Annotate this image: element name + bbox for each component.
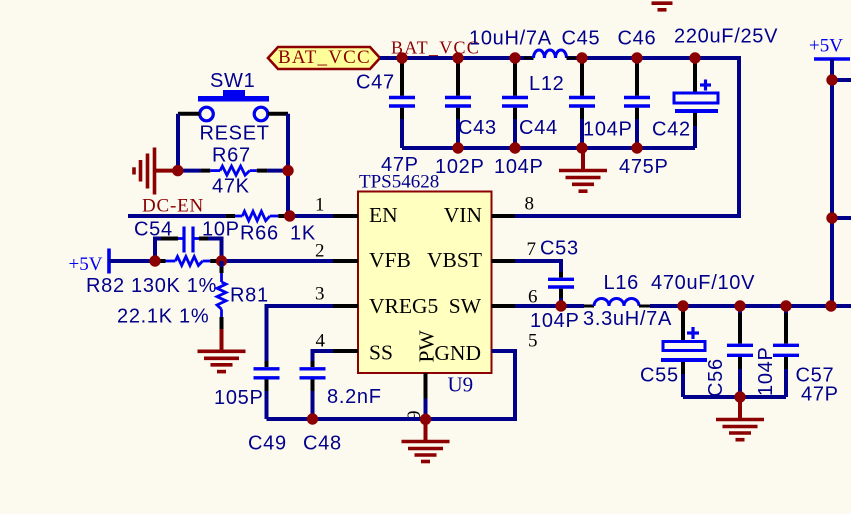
capacitor C57 (755, 306, 839, 406)
node C48 bottom (307, 413, 318, 424)
power port +5V (left) (69, 249, 156, 276)
svg-text:C47: C47 (356, 72, 395, 94)
svg-text:C42: C42 (652, 119, 691, 141)
svg-text:EN: EN (369, 203, 398, 227)
svg-text:8: 8 (525, 194, 535, 215)
wire top rail (380, 56, 534, 60)
svg-text:8.2nF: 8.2nF (327, 386, 382, 408)
ground (left, rotated) (134, 148, 176, 195)
svg-text:C48: C48 (303, 433, 342, 455)
svg-text:VBST: VBST (427, 248, 482, 272)
svg-text:L12: L12 (529, 73, 564, 95)
node junction C55 top (677, 300, 688, 311)
svg-text:L16: L16 (604, 272, 639, 294)
svg-text:PW: PW (415, 330, 439, 363)
node output gnd (734, 391, 745, 402)
node junction C46 top (631, 52, 642, 63)
capacitor C56 (705, 306, 753, 397)
svg-text:VFB: VFB (369, 248, 411, 272)
node junction C42 top (689, 52, 700, 63)
svg-text:3.3uH/7A: 3.3uH/7A (583, 308, 672, 330)
svg-text:5: 5 (528, 330, 538, 351)
ground (output) (716, 397, 764, 440)
inductor L12 (524, 50, 576, 58)
capacitor C42 (polarized) (652, 26, 778, 149)
wire EN to pin1 (288, 214, 333, 218)
svg-text:4: 4 (316, 330, 326, 351)
svg-text:C56: C56 (705, 358, 727, 397)
svg-text:7: 7 (527, 239, 537, 260)
pin 8 (492, 214, 516, 218)
svg-text:SW1: SW1 (210, 70, 255, 92)
svg-text:C44: C44 (519, 117, 558, 139)
svg-text:+5V: +5V (69, 254, 103, 275)
svg-text:1: 1 (315, 195, 325, 216)
capacitor C46 (618, 28, 669, 179)
wire SW output (515, 304, 584, 308)
pin 9 (424, 373, 428, 399)
capacitor C43 (435, 60, 497, 178)
node C53/SW (555, 300, 566, 311)
capacitor C49 (214, 361, 287, 455)
svg-text:10uH/7A: 10uH/7A (469, 28, 552, 50)
pin 2 (333, 259, 358, 263)
capacitor C53 (530, 238, 580, 332)
power port +5V (top right) (809, 36, 850, 307)
svg-text:102P: 102P (435, 156, 485, 178)
ground (cap bank) (559, 148, 607, 191)
pin 5 (492, 349, 516, 353)
resistor R67 (181, 145, 284, 198)
pin 4 (333, 349, 358, 353)
wire EN net (128, 214, 222, 218)
svg-text:470uF/10V: 470uF/10V (651, 272, 755, 294)
wire top rail right of L12 down to VIN (515, 58, 739, 216)
wire VREG5 to C49 (267, 306, 334, 361)
svg-text:+5V: +5V (809, 36, 843, 57)
svg-text:C49: C49 (248, 433, 287, 455)
svg-text:104P: 104P (583, 119, 633, 141)
svg-text:105P: 105P (214, 387, 264, 409)
wire stub right 1 (832, 78, 851, 82)
wire stub right 2 (832, 216, 851, 220)
wire output cap bottom rail (683, 395, 786, 399)
wire switch left leg (176, 114, 180, 171)
svg-text:VIN: VIN (444, 203, 483, 227)
capacitor C44 (494, 60, 558, 178)
node pin9 gnd (420, 414, 431, 425)
wire VFB to pin2 (222, 259, 334, 263)
svg-text:DC-EN: DC-EN (142, 196, 204, 217)
svg-text:R67: R67 (212, 145, 251, 167)
svg-text:10P: 10P (202, 219, 240, 241)
svg-text:SW: SW (449, 294, 482, 318)
wire bottom cap rail (402, 146, 695, 150)
capacitor C48 (300, 361, 382, 455)
wire L16 to +5V rail (650, 304, 851, 308)
svg-text:22.1K 1%: 22.1K 1% (117, 306, 209, 328)
node R67 right (282, 165, 293, 176)
node EN junction (284, 210, 295, 221)
wire pin9 to ground (424, 399, 428, 420)
wire SS to C48 (313, 351, 334, 361)
svg-text:R66: R66 (240, 223, 279, 245)
power tag BAT_VCC (268, 47, 380, 69)
node junction C43 top (452, 52, 463, 63)
svg-text:47K: 47K (212, 176, 250, 198)
svg-text:220uF/25V: 220uF/25V (674, 26, 778, 48)
pin 3 (333, 304, 358, 308)
node +5V rail (826, 74, 837, 85)
svg-text:475P: 475P (619, 156, 669, 178)
svg-text:C55: C55 (640, 365, 679, 387)
node junction C43 bottom (452, 142, 463, 153)
svg-text:R82 130K 1%: R82 130K 1% (86, 275, 217, 297)
node VFB left (149, 255, 160, 266)
svg-text:47P: 47P (801, 384, 839, 406)
node junction C46 bottom (631, 142, 642, 153)
svg-text:VREG5: VREG5 (369, 294, 438, 318)
svg-text:C43: C43 (458, 117, 497, 139)
node junction C45 top (576, 52, 587, 63)
wire VBST to C53 (515, 261, 561, 272)
inductor L16 (583, 272, 672, 330)
pin 7 (492, 259, 516, 263)
node junction +5V rail / output (825, 300, 836, 311)
resistor R82 (86, 257, 219, 298)
node VFB divider (216, 255, 227, 266)
node junction C44 top (509, 52, 520, 63)
pin 1 (333, 214, 358, 218)
svg-text:BAT_VCC: BAT_VCC (278, 47, 371, 68)
op-amp U9 TPS54628 body (358, 172, 492, 397)
resistor R66 (222, 211, 316, 244)
node junction C47 top (396, 52, 407, 63)
capacitor C47 (356, 60, 419, 176)
ground (partial, top edge) (652, 3, 673, 10)
node junction C45 bottom / ground tap (576, 142, 587, 153)
svg-text:C45: C45 (562, 28, 601, 50)
switch SW1 (178, 70, 288, 145)
svg-text:C54: C54 (134, 219, 173, 241)
svg-text:104P: 104P (530, 310, 580, 332)
svg-text:C53: C53 (540, 238, 579, 260)
svg-text:GND: GND (434, 341, 481, 365)
resistor R81 (117, 261, 269, 351)
capacitor C54 branch (134, 219, 240, 262)
node switch/ground (172, 165, 183, 176)
pin 6 (492, 304, 516, 308)
wire switch right leg (286, 114, 290, 216)
svg-text:U9: U9 (448, 373, 474, 397)
svg-text:C46: C46 (618, 28, 657, 50)
svg-text:RESET: RESET (200, 123, 270, 145)
svg-text:SS: SS (369, 341, 393, 365)
node junction C57 top (780, 300, 791, 311)
svg-text:TPS54628: TPS54628 (359, 172, 439, 193)
capacitor C45 (562, 28, 633, 149)
svg-text:3: 3 (315, 284, 325, 305)
node junction C44 bottom (509, 142, 520, 153)
capacitor C55 (polarized) (640, 306, 707, 397)
svg-text:104P: 104P (755, 346, 777, 396)
svg-text:2: 2 (315, 241, 325, 262)
svg-text:104P: 104P (494, 156, 544, 178)
wire bottom gnd rail / pin5 return (267, 351, 516, 419)
ground (R81) (198, 351, 246, 371)
svg-text:R81: R81 (230, 285, 269, 307)
ground (U9) (402, 419, 450, 461)
node junction C56 top (734, 300, 745, 311)
svg-text:1K: 1K (290, 223, 316, 245)
